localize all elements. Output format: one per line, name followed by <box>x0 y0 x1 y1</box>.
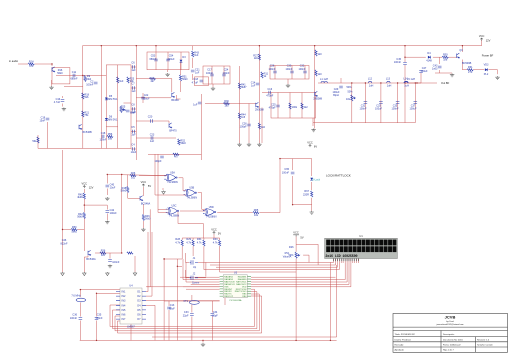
svg-text:220uF: 220uF <box>167 58 175 61</box>
svg-text:RB3/CCP: RB3/CCP <box>224 296 234 298</box>
svg-text:D-Lock: D-Lock <box>312 179 321 182</box>
svg-text:4.7k: 4.7k <box>186 242 191 245</box>
svg-text:Comm: Comm <box>192 282 199 285</box>
svg-text:7.6 MHz: 7.6 MHz <box>71 295 81 298</box>
svg-text:1uF: 1uF <box>251 84 256 87</box>
svg-text:100nF: 100nF <box>359 108 367 111</box>
svg-text:R56: R56 <box>108 133 113 136</box>
svg-text:LM567: LM567 <box>127 326 135 329</box>
svg-text:74LS86N: 74LS86N <box>187 196 198 199</box>
svg-text:100uF: 100uF <box>420 70 428 73</box>
svg-text:4k99: 4k99 <box>77 196 83 199</box>
svg-text:1uF: 1uF <box>131 134 136 137</box>
svg-text:L5 1uH: L5 1uH <box>407 78 415 81</box>
svg-text:56k0: 56k0 <box>77 216 83 219</box>
svg-text:1uF: 1uF <box>131 111 136 114</box>
svg-text:R26: R26 <box>131 172 136 175</box>
svg-text:1k0: 1k0 <box>318 53 323 56</box>
svg-text:100nF: 100nF <box>394 61 402 64</box>
svg-text:100nF: 100nF <box>95 317 103 320</box>
svg-text:U5A: U5A <box>170 171 175 174</box>
svg-text:PL2: PL2 <box>484 73 489 76</box>
svg-text:4148: 4148 <box>426 60 432 63</box>
svg-text:BC546B: BC546B <box>462 62 472 65</box>
svg-text:IN6: IN6 <box>122 314 127 317</box>
svg-text:100nF: 100nF <box>282 172 290 175</box>
svg-text:Fecha: 2008-10-22: Fecha: 2008-10-22 <box>443 345 461 347</box>
svg-text:1uH: 1uH <box>387 85 392 88</box>
svg-text:VCC: VCC <box>211 228 217 232</box>
svg-text:4.7k: 4.7k <box>197 242 202 245</box>
svg-text:1uF: 1uF <box>150 140 155 143</box>
svg-text:680nF: 680nF <box>149 58 157 61</box>
svg-text:74LS86N: 74LS86N <box>169 214 180 217</box>
svg-text:VolumA: VolumA <box>283 255 292 258</box>
svg-text:1uF: 1uF <box>195 71 200 74</box>
svg-text:Documento No: 0001: Documento No: 0001 <box>443 338 463 341</box>
svg-text:IN4: IN4 <box>122 304 127 307</box>
svg-text:4.7k: 4.7k <box>175 242 180 245</box>
svg-text:4k7: 4k7 <box>174 156 179 159</box>
svg-text:4.7uF: 4.7uF <box>54 101 61 104</box>
svg-text:56k0: 56k0 <box>71 231 77 234</box>
svg-text:1k0: 1k0 <box>224 105 229 108</box>
svg-text:5k6: 5k6 <box>84 96 89 99</box>
svg-text:470: 470 <box>29 65 34 68</box>
svg-text:2N5088: 2N5088 <box>313 98 322 101</box>
svg-text:56k0: 56k0 <box>145 218 151 221</box>
svg-text:5V: 5V <box>218 232 221 236</box>
svg-text:Tamaño: Custom: Tamaño: Custom <box>477 344 493 347</box>
svg-text:470pF: 470pF <box>269 106 277 109</box>
svg-text:50%: 50% <box>347 91 353 94</box>
svg-text:C16: C16 <box>268 88 273 91</box>
svg-text:1k0: 1k0 <box>261 126 266 129</box>
svg-text:IN5: IN5 <box>122 309 127 312</box>
svg-text:15nF: 15nF <box>39 119 45 122</box>
svg-text:1k0: 1k0 <box>254 57 259 60</box>
svg-text:BF469: BF469 <box>171 99 179 102</box>
svg-text:VD3: VD3 <box>484 64 489 67</box>
svg-text:22pF: 22pF <box>183 315 189 318</box>
svg-text:1k5: 1k5 <box>101 254 106 257</box>
svg-text:U5C: U5C <box>171 205 176 208</box>
svg-text:C23: C23 <box>150 133 155 136</box>
svg-text:1uF: 1uF <box>131 69 136 72</box>
svg-text:IN7: IN7 <box>122 318 127 321</box>
svg-text:C20: C20 <box>148 116 153 119</box>
svg-text:56k0: 56k0 <box>57 72 63 75</box>
svg-text:100nF: 100nF <box>70 317 78 320</box>
svg-text:1k2: 1k2 <box>131 177 136 180</box>
svg-text:56k0: 56k0 <box>180 142 186 145</box>
svg-text:BF470: BF470 <box>169 130 177 133</box>
svg-text:Revisión: 1.0: Revisión: 1.0 <box>477 339 490 341</box>
svg-text:100pF: 100pF <box>240 125 248 128</box>
svg-text:Out BF: Out BF <box>441 81 450 85</box>
svg-text:L1 1uH: L1 1uH <box>320 78 328 81</box>
svg-text:VCC: VCC <box>141 180 147 184</box>
svg-text:1k0: 1k0 <box>119 80 124 83</box>
svg-text:in audio: in audio <box>9 59 19 63</box>
svg-text:VCC: VCC <box>479 34 485 38</box>
svg-text:680nF: 680nF <box>70 78 78 81</box>
svg-text:100nF: 100nF <box>206 72 214 75</box>
svg-text:Aprobado:: Aprobado: <box>395 349 405 352</box>
svg-text:822nF: 822nF <box>60 243 68 246</box>
svg-text:8k87: 8k87 <box>241 86 247 89</box>
svg-text:Hoja 1 de 7: Hoja 1 de 7 <box>443 350 454 352</box>
svg-text:VCC: VCC <box>307 141 313 145</box>
svg-text:JCVB: JCVB <box>445 315 456 320</box>
svg-text:100nF: 100nF <box>112 261 120 264</box>
svg-text:BC546A: BC546A <box>86 258 96 261</box>
svg-text:R30: R30 <box>224 100 229 103</box>
svg-text:100nF: 100nF <box>99 139 107 142</box>
svg-text:100nF: 100nF <box>391 108 399 111</box>
svg-text:Título: PIC16F628 I2C: Título: PIC16F628 I2C <box>395 333 416 336</box>
svg-text:R50: R50 <box>72 226 77 229</box>
svg-text:100k: 100k <box>292 106 298 109</box>
svg-text:1k5: 1k5 <box>241 116 246 119</box>
svg-text:by: Fred: by: Fred <box>446 321 453 323</box>
svg-text:IN3: IN3 <box>122 300 127 303</box>
svg-text:1k0: 1k0 <box>318 73 323 76</box>
svg-text:R26: R26 <box>289 246 294 249</box>
svg-text:100uF: 100uF <box>375 108 383 111</box>
svg-text:1u63: 1u63 <box>432 67 438 70</box>
svg-text:ZMM 5V1: ZMM 5V1 <box>107 119 118 122</box>
svg-text:10uF: 10uF <box>131 151 137 154</box>
svg-text:LOCK/RATTLOCK: LOCK/RATTLOCK <box>326 174 351 178</box>
svg-text:U5B: U5B <box>189 187 194 190</box>
svg-text:VCC: VCC <box>293 231 299 235</box>
svg-text:100nF: 100nF <box>268 68 276 71</box>
svg-text:XT1: XT1 <box>183 300 188 303</box>
svg-text:4.7uF: 4.7uF <box>192 82 199 85</box>
svg-text:R14: R14 <box>29 60 34 63</box>
svg-text:1k8: 1k8 <box>443 58 448 61</box>
svg-text:4.7k: 4.7k <box>213 242 218 245</box>
svg-text:1k8: 1k8 <box>108 138 113 141</box>
svg-text:2x16 LCD 16025590: 2x16 LCD 16025590 <box>325 255 357 259</box>
svg-text:BC546B: BC546B <box>82 131 92 134</box>
svg-text:U1: U1 <box>359 234 363 238</box>
svg-text:R59: R59 <box>443 54 448 57</box>
svg-text:PIC16F628A: PIC16F628A <box>230 299 243 302</box>
svg-text:50%: 50% <box>346 86 352 89</box>
svg-text:Bipol: Bipol <box>333 94 339 97</box>
svg-text:Revisado:: Revisado: <box>395 345 405 347</box>
svg-text:100nF: 100nF <box>86 83 94 86</box>
svg-text:6V: 6V <box>314 145 317 149</box>
svg-text:L13: L13 <box>386 78 391 81</box>
svg-text:100nF: 100nF <box>222 72 230 75</box>
svg-text:22pF: 22pF <box>212 315 218 318</box>
svg-text:100nF: 100nF <box>298 68 306 71</box>
svg-text:1uF: 1uF <box>193 103 198 106</box>
svg-text:IN2: IN2 <box>122 295 127 298</box>
svg-text:1uH: 1uH <box>404 85 409 88</box>
svg-text:Power BF: Power BF <box>482 54 494 58</box>
svg-text:12V: 12V <box>89 186 94 190</box>
svg-text:BC546A: BC546A <box>141 203 151 206</box>
svg-text:IN1: IN1 <box>122 291 127 294</box>
svg-text:12V: 12V <box>486 39 491 43</box>
svg-text:VCC: VCC <box>82 182 88 186</box>
svg-text:L12: L12 <box>368 78 373 81</box>
svg-text:68uF: 68uF <box>169 308 175 311</box>
svg-text:270: 270 <box>468 71 473 74</box>
svg-text:100uF: 100uF <box>142 98 150 101</box>
svg-text:220R: 220R <box>303 194 309 197</box>
svg-text:U5D: U5D <box>209 206 214 209</box>
svg-text:R36: R36 <box>101 249 106 252</box>
svg-text:R65: R65 <box>254 209 259 212</box>
svg-text:2N5088: 2N5088 <box>255 109 264 112</box>
svg-text:ZMM 5V1: ZMM 5V1 <box>107 98 118 101</box>
svg-text:C18: C18 <box>101 132 106 135</box>
svg-text:5V: 5V <box>148 184 151 188</box>
svg-text:1uH: 1uH <box>369 85 374 88</box>
svg-text:4k7: 4k7 <box>150 80 155 83</box>
svg-text:1uF: 1uF <box>131 90 136 93</box>
svg-text:470pF: 470pF <box>266 95 274 98</box>
svg-text:10uF: 10uF <box>110 186 116 189</box>
svg-text:Descripción:: Descripción: <box>443 333 455 336</box>
svg-text:Diseño: Fredesún: Diseño: Fredesún <box>395 338 412 341</box>
svg-text:74LS86N: 74LS86N <box>167 181 178 184</box>
svg-text:1k0: 1k0 <box>194 54 199 57</box>
svg-text:74LS86N: 74LS86N <box>206 216 217 219</box>
svg-text:5V: 5V <box>300 235 303 239</box>
svg-text:100pF: 100pF <box>154 160 162 163</box>
svg-text:100uF: 100uF <box>409 108 417 111</box>
svg-text:R61: R61 <box>468 66 473 69</box>
svg-text:100nF: 100nF <box>110 212 118 215</box>
svg-text:2k2: 2k2 <box>304 106 309 109</box>
svg-text:100nF: 100nF <box>285 68 293 71</box>
svg-text:56k0: 56k0 <box>182 78 188 81</box>
svg-text:C11: C11 <box>72 71 77 74</box>
svg-text:56k0: 56k0 <box>121 190 127 193</box>
svg-text:jeancarlosvb1976@hotmail.com: jeancarlosvb1976@hotmail.com <box>436 323 464 326</box>
